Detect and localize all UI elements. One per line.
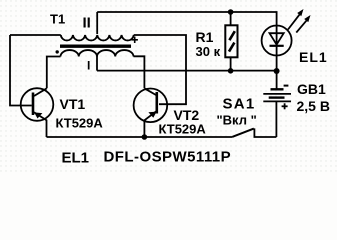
svg-text:"Вкл ": "Вкл " bbox=[217, 113, 257, 128]
VT2 emitter arrowhead bbox=[148, 112, 156, 118]
svg-text:SA1: SA1 bbox=[223, 96, 256, 113]
junction node R1 bottom bbox=[228, 68, 234, 74]
junction top R1 bbox=[228, 9, 234, 15]
svg-text:VT1: VT1 bbox=[60, 96, 86, 112]
transformer T1 winding II bbox=[61, 35, 134, 40]
wire node line bbox=[97, 70, 277, 72]
svg-text:GB1: GB1 bbox=[297, 81, 326, 97]
junction node battery top bbox=[274, 68, 280, 74]
svg-text:I: I bbox=[87, 59, 90, 73]
battery plus sign bbox=[282, 105, 288, 107]
battery minus sign bbox=[284, 85, 289, 87]
switch SA1 right contact bbox=[254, 128, 276, 137]
svg-text:КТ529А: КТ529А bbox=[159, 122, 207, 137]
resistor R1 power marks bbox=[229, 31, 234, 40]
svg-text:T1: T1 bbox=[50, 12, 65, 27]
transistor VT2 emitter bbox=[144, 112, 156, 138]
junction VT2 emitter bbox=[142, 134, 148, 140]
LED arrow head 1 bbox=[297, 9, 303, 16]
svg-text:EL1: EL1 bbox=[299, 49, 328, 65]
svg-text:II: II bbox=[83, 15, 91, 32]
VT1 emitter arrowhead bbox=[34, 112, 42, 118]
wire top-left to winding II bbox=[10, 34, 61, 36]
wire winding II center tap bbox=[96, 12, 98, 34]
label plus winding II bbox=[132, 37, 138, 43]
LED EL1 cathode bar bbox=[270, 45, 284, 47]
transistor VT2 collector bbox=[144, 88, 156, 95]
transistor VT1 base bar bbox=[32, 93, 35, 116]
transistor VT1 collector bbox=[34, 88, 47, 96]
transistor VT2 base bar bbox=[156, 92, 159, 114]
LED arrow head 2 bbox=[304, 15, 310, 22]
resistor R1 leads bbox=[230, 12, 232, 25]
wire winding I right end to VT2 collector bbox=[134, 56, 145, 88]
wire bottom rail bbox=[47, 136, 233, 138]
battery GB1 bottom wire bbox=[275, 101, 277, 137]
transistor VT1 emitter bbox=[34, 112, 47, 137]
wire winding I left end to VT1 collector bbox=[47, 57, 61, 89]
LED EL1 circle bbox=[262, 26, 292, 56]
svg-text:EL1: EL1 bbox=[62, 150, 90, 167]
wire top rail bbox=[97, 12, 276, 26]
svg-text:КТ529А: КТ529А bbox=[56, 116, 104, 131]
transformer T1 core bbox=[60, 45, 131, 48]
LED EL1 vertical wire bbox=[276, 26, 278, 89]
svg-text:DFL-OSPW5111P: DFL-OSPW5111P bbox=[104, 149, 232, 166]
svg-text:R1: R1 bbox=[196, 29, 214, 45]
transistor VT1 circle bbox=[21, 88, 54, 121]
switch SA1 blade bbox=[233, 129, 254, 137]
LED EL1 triangle bbox=[270, 33, 284, 44]
polarity dot winding I bbox=[56, 50, 59, 53]
wire winding I center tap to node line bbox=[96, 56, 98, 71]
LED EL1 arrow 2 bbox=[296, 20, 307, 32]
transformer T1 winding I bbox=[61, 50, 134, 56]
svg-text:2,5 В: 2,5 В bbox=[297, 98, 330, 114]
LED EL1 arrow 1 bbox=[288, 14, 300, 29]
resistor R1 body bbox=[225, 25, 237, 57]
battery GB1 plates bbox=[271, 88, 284, 90]
wire winding II right end to VT2 base bbox=[134, 35, 186, 104]
wire left rail bbox=[10, 35, 32, 106]
svg-text:30 к: 30 к bbox=[196, 44, 221, 59]
transistor VT2 circle bbox=[134, 89, 168, 123]
